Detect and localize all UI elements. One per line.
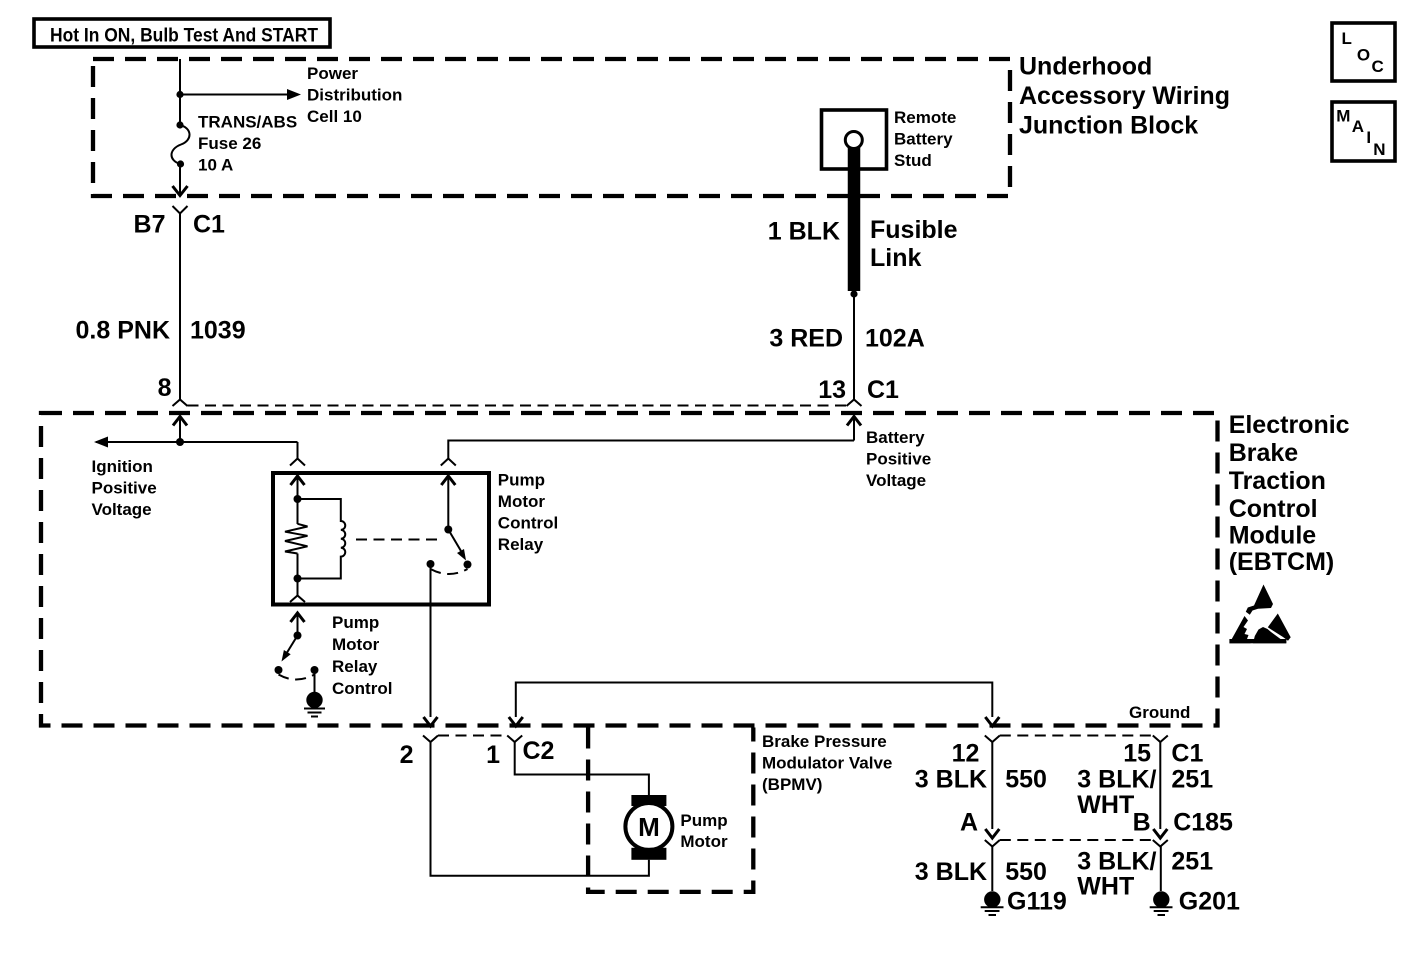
- relay pin B arrow: [441, 476, 455, 485]
- svg-text:WHT: WHT: [1077, 791, 1134, 819]
- svg-text:13: 13: [818, 376, 846, 404]
- svg-text:C: C: [1372, 57, 1384, 76]
- svg-text:WHT: WHT: [1077, 873, 1134, 901]
- pin 13 up arrow: [847, 417, 861, 426]
- wire pin12 to connector A: [991, 742, 993, 829]
- svg-text:I: I: [1366, 128, 1371, 147]
- svg-text:1 BLK: 1 BLK: [768, 218, 840, 246]
- relay control arrow below box: [291, 613, 305, 622]
- svg-text:Accessory Wiring: Accessory Wiring: [1019, 82, 1230, 110]
- pin 12 fork: [985, 736, 1000, 743]
- svg-text:550: 550: [1005, 858, 1047, 886]
- svg-text:M: M: [638, 812, 660, 842]
- svg-text:B: B: [1133, 809, 1151, 837]
- svg-text:1039: 1039: [190, 317, 246, 345]
- svg-text:Relay: Relay: [332, 657, 378, 676]
- svg-text:Control: Control: [1229, 495, 1318, 523]
- svg-text:A: A: [1352, 117, 1364, 136]
- remote battery stud: [822, 110, 887, 169]
- svg-text:(BPMV): (BPMV): [762, 775, 822, 794]
- svg-text:Power: Power: [307, 64, 358, 83]
- svg-text:Positive: Positive: [866, 450, 931, 469]
- svg-text:G119: G119: [1007, 888, 1067, 916]
- svg-text:Fuse 26: Fuse 26: [198, 134, 261, 153]
- fusible link: [848, 147, 861, 291]
- ground G201: [1153, 891, 1169, 907]
- pin 15 fork: [1153, 736, 1168, 743]
- ESD symbol: [1229, 585, 1290, 644]
- svg-text:B7: B7: [134, 211, 166, 239]
- svg-text:1: 1: [486, 741, 500, 769]
- relay coil (parallel path): [298, 499, 346, 579]
- junction dot: [176, 91, 183, 98]
- svg-text:C1: C1: [1171, 740, 1203, 768]
- label box: Hot In ON, Bulb Test And START: [34, 19, 330, 47]
- switch arm: [448, 530, 461, 552]
- svg-text:O: O: [1357, 46, 1370, 65]
- svg-text:3 RED: 3 RED: [769, 325, 843, 353]
- EBTCM dashed box: [41, 413, 1218, 726]
- pin 1 fork: [507, 736, 522, 743]
- wire A to G119: [991, 847, 993, 892]
- svg-text:3 BLK/: 3 BLK/: [1077, 766, 1156, 794]
- svg-text:10 A: 10 A: [198, 156, 233, 175]
- svg-text:Module: Module: [1229, 522, 1317, 550]
- connector fork B7/C1: [173, 206, 188, 214]
- svg-text:Motor: Motor: [332, 635, 380, 654]
- fuse 26: [176, 121, 183, 128]
- svg-text:Traction: Traction: [1229, 467, 1326, 495]
- wire down to relay pin A: [297, 442, 299, 458]
- svg-text:C185: C185: [1173, 809, 1233, 837]
- wire: ignition positive voltage: [96, 441, 298, 443]
- svg-text:C2: C2: [523, 737, 555, 765]
- junction dot ignition: [176, 438, 184, 446]
- wire 1039: [179, 214, 181, 400]
- svg-text:Modulator Valve: Modulator Valve: [762, 754, 892, 773]
- svg-text:3 BLK: 3 BLK: [915, 766, 987, 794]
- svg-text:0.8 PNK: 0.8 PNK: [76, 317, 170, 345]
- svg-text:Voltage: Voltage: [866, 471, 926, 490]
- svg-text:Underhood: Underhood: [1019, 53, 1152, 81]
- wire pin1 to motor (high side): [515, 742, 649, 795]
- wire: battery positive voltage: [448, 441, 854, 459]
- wire: feed from hot bus: [179, 59, 181, 125]
- svg-text:N: N: [1373, 140, 1385, 159]
- MAIN box: [1332, 102, 1395, 161]
- pump motor: [631, 795, 666, 806]
- wire: branch to power distribution: [180, 94, 288, 96]
- connector B fork: [1153, 840, 1168, 847]
- svg-text:Pump: Pump: [680, 811, 727, 830]
- svg-text:Ground: Ground: [1129, 703, 1190, 722]
- coil bottom junction dot: [294, 575, 302, 583]
- thin dashed connector line C1 (top of EBTCM): [188, 405, 847, 407]
- wire relay to pin 2: [430, 564, 432, 717]
- svg-text:550: 550: [1005, 766, 1047, 794]
- svg-text:Cell 10: Cell 10: [307, 107, 362, 126]
- svg-text:Brake: Brake: [1229, 439, 1299, 467]
- svg-text:A: A: [960, 809, 978, 837]
- thin dashed pin2-pin1: [438, 735, 507, 737]
- svg-text:M: M: [1336, 107, 1350, 126]
- coil top junction dot: [294, 495, 302, 503]
- svg-text:Battery: Battery: [866, 428, 925, 447]
- wire B to G201: [1160, 847, 1162, 892]
- relay pin A arrow: [291, 476, 305, 485]
- svg-text:Fusible: Fusible: [870, 216, 958, 244]
- resistor: [297, 499, 299, 524]
- fixed contact dot: [427, 560, 435, 568]
- switch travel arc: [431, 569, 468, 574]
- svg-text:251: 251: [1171, 848, 1213, 876]
- svg-text:2: 2: [400, 741, 414, 769]
- svg-text:TRANS/ABS: TRANS/ABS: [198, 113, 297, 132]
- switch contact dot: [464, 561, 472, 569]
- wire pin15 to connector B: [1159, 742, 1161, 829]
- pin 8 up arrow: [173, 417, 187, 426]
- svg-text:Electronic: Electronic: [1229, 411, 1350, 439]
- svg-text:251: 251: [1171, 766, 1213, 794]
- svg-text:Motor: Motor: [498, 492, 546, 511]
- ground G119: [984, 891, 1000, 907]
- BPMV dashed box: [588, 728, 753, 892]
- relay box: [273, 473, 489, 605]
- svg-text:Control: Control: [498, 514, 558, 533]
- svg-text:Relay: Relay: [498, 535, 544, 554]
- wire pin2 to motor (low side): [431, 742, 649, 876]
- switch pivot dot: [444, 526, 452, 534]
- svg-text:Pump: Pump: [332, 613, 379, 632]
- LOC box: [1332, 23, 1395, 81]
- svg-text:Remote: Remote: [894, 108, 956, 127]
- thin dashed pin12-pin15: [1000, 735, 1153, 737]
- connector A fork: [985, 840, 1000, 847]
- svg-text:L: L: [1342, 29, 1352, 48]
- svg-text:3 BLK: 3 BLK: [915, 858, 987, 886]
- svg-text:(EBTCM): (EBTCM): [1229, 548, 1335, 576]
- wire 102A: [853, 294, 855, 399]
- dashed link coil to switch: [356, 539, 443, 541]
- svg-text:G201: G201: [1179, 888, 1240, 916]
- svg-text:Battery: Battery: [894, 130, 953, 149]
- svg-text:Voltage: Voltage: [92, 500, 152, 519]
- relay pin D fork (bottom-left): [297, 579, 299, 596]
- svg-text:Pump: Pump: [498, 471, 545, 490]
- svg-text:Distribution: Distribution: [307, 86, 402, 105]
- svg-text:Control: Control: [332, 679, 392, 698]
- svg-text:102A: 102A: [865, 325, 925, 353]
- internal wire pin1 to pin12: [516, 683, 993, 718]
- thin dashed A-B: [1000, 839, 1153, 841]
- svg-text:Junction Block: Junction Block: [1019, 112, 1198, 140]
- svg-text:Positive: Positive: [92, 479, 157, 498]
- svg-text:Ignition: Ignition: [92, 457, 153, 476]
- svg-text:Motor: Motor: [680, 832, 728, 851]
- svg-text:Stud: Stud: [894, 151, 932, 170]
- svg-text:Link: Link: [870, 244, 921, 272]
- wire below fuse with down arrow: [179, 164, 181, 194]
- svg-text:C1: C1: [193, 211, 225, 239]
- svg-text:12: 12: [952, 740, 980, 768]
- svg-text:C1: C1: [867, 376, 899, 404]
- pin 2 fork: [423, 736, 438, 743]
- underhood junction block dashed box: [93, 59, 1010, 196]
- svg-text:Hot In ON, Bulb Test And START: Hot In ON, Bulb Test And START: [50, 26, 318, 47]
- relay control switch: [294, 632, 302, 640]
- svg-text:3 BLK/: 3 BLK/: [1077, 848, 1156, 876]
- ground (relay control): [314, 670, 316, 692]
- svg-text:Brake Pressure: Brake Pressure: [762, 732, 887, 751]
- svg-text:8: 8: [158, 374, 172, 402]
- svg-text:15: 15: [1123, 740, 1151, 768]
